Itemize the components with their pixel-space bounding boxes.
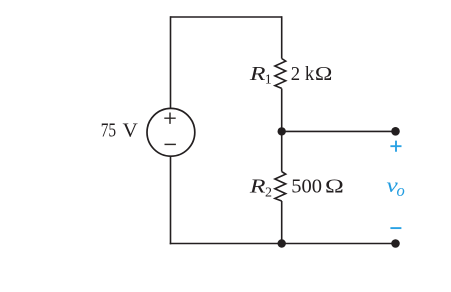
wire top [171, 16, 282, 18]
svg-text:Ω: Ω [315, 63, 333, 85]
wire middle node to plus terminal [282, 130, 396, 132]
wire left lower (source to bottom rail) [170, 156, 172, 245]
svg-text:500: 500 [291, 176, 322, 198]
terminal minus dot [391, 239, 400, 248]
terminal plus dot [391, 127, 400, 136]
wire top to R1 [281, 16, 283, 58]
node bottom junction dot [278, 239, 286, 247]
resistor R1 zigzag [275, 59, 286, 89]
voltage source plus sign [164, 113, 175, 124]
polarity minus sign (cyan) [390, 227, 401, 229]
svg-text:V: V [123, 120, 138, 142]
svg-text:Ω: Ω [325, 176, 344, 198]
wire R2 to bottom node [281, 201, 283, 244]
svg-text:o: o [397, 181, 405, 200]
svg-text:R: R [249, 176, 266, 198]
resistor R2 zigzag [275, 172, 286, 201]
wire bottom rail [170, 243, 396, 245]
svg-text:2: 2 [265, 186, 272, 201]
svg-text:1: 1 [265, 72, 272, 87]
wire middle node to R2 [281, 131, 283, 171]
node middle junction dot [278, 127, 286, 135]
polarity plus sign (cyan) [390, 141, 401, 152]
wire left upper (top rail to source) [170, 16, 172, 109]
voltage source V1 circle [147, 108, 195, 156]
svg-text:R: R [249, 63, 266, 85]
wire R1 to middle node [281, 89, 283, 132]
svg-text:2 k: 2 k [291, 63, 315, 85]
voltage source minus sign [165, 143, 176, 145]
svg-text:75: 75 [101, 120, 116, 142]
